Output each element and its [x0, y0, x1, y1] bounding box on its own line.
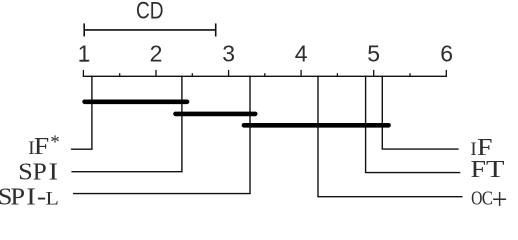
svg-text:*: *: [50, 132, 60, 153]
minor tick 3.5: [264, 73, 266, 77]
major tick 3: [228, 70, 230, 77]
CD ruler line: [84, 29, 216, 31]
svg-text:S: S: [18, 160, 33, 186]
CD ruler right end tick: [215, 23, 217, 36]
svg-text:I: I: [26, 183, 36, 206]
svg-text:L: L: [46, 189, 59, 206]
major tick 4: [300, 70, 302, 77]
major tick 5: [373, 70, 375, 77]
svg-text:I: I: [49, 158, 59, 185]
drop line SPI rank 2.35: [181, 76, 183, 172]
major tick 2: [155, 70, 157, 77]
svg-text:4: 4: [295, 41, 308, 67]
major tick 1: [82, 70, 84, 77]
minor tick 4.5: [336, 73, 338, 77]
major tick 6: [445, 70, 447, 77]
minor tick 1.5: [119, 73, 121, 77]
label IF: [470, 134, 492, 161]
svg-text:T: T: [486, 156, 505, 182]
svg-text:P: P: [33, 159, 47, 185]
CD ruler left end tick: [83, 23, 85, 36]
drop line SPI-L rank 3.29: [249, 76, 251, 194]
label SPI: [18, 158, 58, 186]
svg-text:CD: CD: [136, 0, 164, 24]
connector FT: [365, 172, 460, 174]
svg-text:+: +: [492, 183, 508, 206]
drop line FT rank 4.87: [365, 76, 367, 173]
svg-text:6: 6: [440, 41, 453, 67]
connector IF: [382, 148, 459, 150]
drop line IF rank 5.12: [381, 76, 383, 149]
svg-text:O: O: [471, 187, 482, 206]
svg-text:1: 1: [78, 41, 91, 67]
drop line IF* rank 1.11: [91, 76, 93, 150]
svg-text:F: F: [470, 156, 485, 183]
connector SPI: [71, 171, 182, 173]
drop line OC+ rank 4.20: [317, 76, 319, 197]
clique bar 2 (SPI to SPI-L): [176, 112, 256, 117]
clique bar 3 (SPI-L to IF): [244, 123, 389, 128]
svg-text:F: F: [34, 133, 49, 160]
label OC+: [471, 183, 507, 217]
axis line: [83, 75, 447, 77]
label SPI-L: [0, 183, 59, 210]
connector SPI-L: [73, 193, 251, 195]
minor tick 2.5: [191, 73, 193, 77]
connector IF*: [71, 148, 93, 150]
svg-text:5: 5: [367, 41, 380, 67]
svg-text:3: 3: [222, 41, 235, 67]
svg-text:P: P: [10, 184, 25, 206]
label FT: [470, 156, 504, 183]
minor tick 5.5: [409, 73, 411, 77]
svg-text:2: 2: [150, 41, 163, 67]
connector OC+: [317, 196, 462, 198]
tick label 1: [78, 41, 91, 67]
label IF*: [28, 132, 60, 160]
clique bar 1 (IF* to SPI): [85, 100, 187, 105]
